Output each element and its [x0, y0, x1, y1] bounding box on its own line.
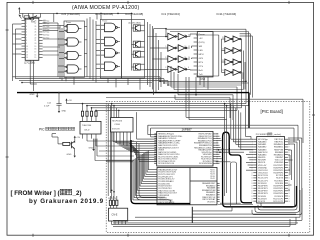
wire EPROM to gates: [43, 22, 58, 24]
wire nested bottom left: [137, 142, 172, 204]
thick arc jumper: [223, 132, 230, 150]
svg-text:PIC16F887(: PIC16F887(: [256, 134, 268, 136]
svg-text:by Grakuraen 2019.9: by Grakuraen 2019.9: [29, 198, 104, 205]
svg-text:RxD: RxD: [199, 70, 204, 72]
wire B1 bottom pins: [112, 132, 114, 142]
svg-text:RD0/1: RD0/1: [210, 169, 215, 171]
wire CN2 bottom drops: [199, 77, 201, 85]
wire gates1 to gates2: [86, 19, 88, 77]
svg-text:6: 6: [26, 35, 27, 37]
svg-text:RC1/CCP2: RC1/CCP2: [273, 201, 284, 203]
svg-text:12: 12: [233, 70, 235, 72]
svg-text:11: 11: [185, 57, 187, 59]
svg-text:21: 21: [35, 40, 37, 42]
NAND gate IC4d: [105, 62, 116, 71]
svg-text:13: 13: [222, 37, 224, 39]
svg-text:27: 27: [35, 23, 37, 25]
svg-text:GND: GND: [89, 148, 94, 150]
wire transistors to inverters: [147, 22, 149, 85]
svg-text:10: 10: [154, 154, 156, 156]
svg-text:13: 13: [222, 70, 224, 72]
wire PIC left verticals: [107, 104, 109, 196]
svg-text:RA4/T0CK: RA4/T0CK: [258, 151, 268, 154]
transistor Q2: [133, 41, 140, 47]
wire bus right extension: [148, 124, 298, 126]
svg-text:PIC: PIC: [39, 128, 45, 132]
IC write socket U-B: [257, 137, 285, 204]
IC writer buffer: [80, 121, 101, 134]
svg-text:10: 10: [26, 46, 28, 48]
svg-text:18: 18: [35, 49, 37, 51]
svg-text:CTS: CTS: [199, 66, 204, 68]
svg-text:CN-E: CN-E: [112, 214, 118, 217]
wire +5V drops: [74, 140, 76, 143]
thick bus vertical 2: [229, 148, 252, 203]
svg-text:RA5/AN4: RA5/AN4: [258, 153, 267, 156]
svg-text:+5V: +5V: [76, 137, 80, 139]
transistor Q3: [133, 51, 140, 57]
wire EPROM bottom: [33, 60, 35, 91]
wire module bottoms to band: [65, 77, 67, 81]
wire fan bus to socket pins: [147, 151, 149, 170]
svg-text:_socket): _socket): [272, 133, 282, 136]
wire IC1 top bus: [154, 28, 167, 30]
EPROM pin1 arrow: [19, 15, 22, 19]
svg-text:24: 24: [35, 32, 37, 34]
svg-text:74HC244: 74HC244: [82, 125, 92, 127]
svg-text:14: 14: [26, 57, 28, 59]
svg-text:+5V: +5V: [199, 38, 203, 40]
svg-text:RD1/2: RD1/2: [210, 172, 215, 174]
svg-text:RA1/AN1: RA1/AN1: [258, 143, 267, 146]
svg-text:GND: GND: [30, 94, 35, 96]
svg-text:16F887: 16F887: [182, 127, 193, 131]
svg-text:RC6/TX: RC6/TX: [258, 201, 266, 203]
svg-text:12: 12: [188, 46, 190, 48]
svg-text:13: 13: [154, 161, 156, 163]
wire bus to B1: [111, 104, 113, 118]
svg-text:RB4/AN11: RB4/AN11: [274, 146, 284, 149]
svg-text:16: 16: [35, 54, 37, 56]
svg-text:12: 12: [233, 60, 235, 62]
svg-text:1: 1: [26, 20, 27, 22]
thick bus wire: [17, 92, 249, 94]
wire crossing rows: [216, 149, 254, 151]
resistor pack RP1: [81, 111, 83, 116]
inverter pair IC1b: [168, 45, 175, 51]
svg-text:7: 7: [26, 37, 27, 39]
svg-text:+5V: +5V: [68, 100, 72, 102]
svg-text:9: 9: [26, 43, 27, 45]
NAND gate IC4b: [105, 37, 116, 46]
svg-text:R4 R5 R6: R4 R5 R6: [108, 198, 116, 200]
svg-text:14: 14: [154, 163, 156, 165]
svg-text:MCP1825: MCP1825: [112, 120, 123, 122]
svg-text:RA0/AN0: RA0/AN0: [258, 141, 267, 144]
svg-text:RA2/AN2: RA2/AN2: [258, 146, 267, 149]
wire B1 to bottom: [111, 132, 113, 199]
svg-text:(4x 2SC1815): (4x 2SC1815): [129, 23, 142, 25]
transistor Q5: [71, 142, 73, 149]
ground EPROM: [36, 93, 38, 96]
wire CN-E bottom bus: [112, 223, 297, 225]
module box IC4: [100, 20, 121, 79]
NOR gate IC5a: [67, 24, 78, 32]
svg-text:(AIWA MODEM PV-A1200): (AIWA MODEM PV-A1200): [72, 5, 140, 11]
inverter pair IC11b: [225, 48, 232, 54]
wire bus drop to IC-B left: [230, 104, 232, 140]
svg-text:RB5/AN13: RB5/AN13: [274, 143, 284, 146]
wire band left: [13, 76, 161, 78]
svg-text:GND: GND: [67, 154, 72, 156]
svg-text:RD4/5: RD4/5: [210, 178, 215, 180]
svg-text:RB2/AN8: RB2/AN8: [275, 151, 284, 154]
svg-text:11: 11: [154, 156, 156, 158]
svg-text:26: 26: [35, 26, 37, 28]
svg-text:VDD/Vss: VDD/Vss: [207, 201, 215, 203]
svg-text:RTS: RTS: [199, 62, 204, 64]
inverter pair IC11a: [225, 36, 232, 42]
wire IC-A right pin extensions: [216, 133, 219, 135]
svg-text:5V/3.3V: 5V/3.3V: [112, 129, 120, 131]
NOR gate IC5c: [67, 51, 78, 59]
wire rail drops: [53, 13, 55, 22]
IC socket U-C/U-D: [157, 168, 217, 205]
wire band right nested: [160, 80, 246, 82]
thick bus vertical: [223, 148, 297, 207]
regulator B1: [111, 118, 133, 132]
module box IC5: [64, 21, 85, 77]
resistor R11: [63, 142, 70, 145]
svg-text:6: 6: [177, 46, 178, 48]
NAND gate IC4a: [105, 23, 116, 32]
svg-text:RB1/AN10: RB1/AN10: [274, 153, 284, 156]
svg-text:12: 12: [233, 48, 235, 50]
svg-text:_2): _2): [72, 190, 82, 197]
svg-text:CN-D: CN-D: [84, 130, 90, 132]
wire IC11 input bus: [221, 39, 223, 72]
wire base rail: [131, 22, 133, 71]
svg-text:GND: GND: [62, 111, 67, 113]
svg-text:22: 22: [35, 37, 37, 39]
svg-text:(DC5): (DC5): [199, 42, 205, 44]
svg-text:[PIC Board]: [PIC Board]: [261, 109, 283, 114]
svg-text:4: 4: [177, 67, 178, 69]
wire pair under arc: [224, 104, 226, 196]
svg-text:12: 12: [233, 37, 235, 39]
power arrow +5V writer: [66, 100, 68, 103]
svg-text:8: 8: [26, 40, 27, 42]
connector CN-E: [109, 208, 128, 221]
inverter pair IC11c: [225, 59, 232, 65]
svg-text:28: 28: [35, 20, 37, 22]
switch SW1: [22, 13, 24, 17]
svg-text:LED: LED: [199, 50, 204, 52]
inverter pair IC11d: [225, 69, 232, 75]
svg-text:23: 23: [35, 35, 37, 37]
module box Q group: [122, 20, 145, 79]
svg-text:IC3 [74HC08]: IC3 [74HC08]: [125, 12, 143, 16]
IC PIC16F886 U-A: [157, 131, 213, 166]
wire bottom verticals: [191, 207, 193, 223]
wire PIC top bus: [67, 103, 247, 105]
svg-text:IC5 [74HC08]: IC5 [74HC08]: [62, 12, 80, 16]
NAND gate IC4c: [105, 49, 116, 58]
NOR gate IC5d: [67, 65, 78, 73]
wire writer base: [57, 137, 59, 144]
wire IC-B right loops: [261, 144, 295, 208]
svg-text:15: 15: [35, 57, 37, 59]
ground writer: [93, 139, 95, 146]
svg-text:IC1 [74HC04]: IC1 [74HC04]: [162, 12, 180, 16]
wire IC11 outputs down: [241, 39, 243, 85]
power rail +5V: [18, 9, 20, 12]
wire IC11 top feed: [166, 28, 246, 30]
transistor Q4: [133, 64, 140, 70]
svg-text:13: 13: [222, 48, 224, 50]
wire fan bus to PIC pins: [147, 125, 149, 134]
svg-text:4: 4: [26, 29, 27, 31]
svg-text:12: 12: [26, 52, 28, 54]
svg-text:IC11 [74HC04]: IC11 [74HC04]: [217, 12, 237, 16]
svg-text:13: 13: [26, 54, 28, 56]
capacitor C14: [58, 93, 60, 104]
svg-text:8: 8: [177, 57, 178, 59]
wire inverters to CN2: [189, 34, 191, 37]
svg-text:25: 25: [35, 29, 37, 31]
svg-text:13: 13: [222, 60, 224, 62]
svg-text:RC4/SDI/SDA: RC4/SDI/SDA: [199, 162, 212, 165]
svg-text:Power: Power: [102, 21, 107, 23]
wire writer to PIC board: [87, 140, 134, 142]
transistor Q1: [133, 25, 140, 31]
svg-text:10: 10: [188, 57, 190, 59]
wire IC1 left bus: [153, 29, 155, 95]
EPROM IC2 27C256: [25, 18, 39, 60]
inverter pair IC1d: [168, 66, 175, 72]
svg-text:13: 13: [185, 46, 187, 48]
svg-text:3: 3: [26, 26, 27, 28]
wire IC-B more stubs: [288, 149, 292, 151]
svg-text:2: 2: [177, 34, 178, 36]
wire bottom bus lines: [192, 210, 232, 212]
inverter pair IC1c: [168, 56, 175, 62]
ground C14: [58, 108, 60, 111]
svg-text:Power: Power: [199, 33, 205, 36]
svg-text:CN2: CN2: [201, 79, 206, 81]
svg-text:MPU: MPU: [199, 54, 204, 56]
svg-text:19: 19: [35, 46, 37, 48]
svg-text:5: 5: [26, 32, 27, 34]
junction dots band: [159, 81, 161, 83]
svg-text:RD2/3: RD2/3: [210, 174, 215, 176]
inverter pair IC1a: [168, 33, 175, 39]
svg-text:RD3/4: RD3/4: [210, 176, 215, 178]
wire top rail: [19, 12, 131, 14]
wire band verticals left: [159, 77, 161, 82]
svg-text:RA3/AN3: RA3/AN3: [258, 148, 267, 151]
wire band line low: [175, 98, 303, 100]
svg-text:11: 11: [26, 49, 28, 51]
thick left vertical: [131, 140, 190, 204]
PIC board dashed outline: [106, 102, 310, 233]
svg-text:Power: Power: [66, 22, 71, 24]
svg-text:TxD: TxD: [199, 74, 203, 76]
wire left bus: [12, 24, 14, 81]
svg-text:GP5: GP5: [199, 58, 204, 60]
svg-text:2: 2: [26, 23, 27, 25]
svg-text:12: 12: [154, 159, 156, 161]
svg-text:17: 17: [35, 52, 37, 54]
svg-text:20: 20: [35, 43, 37, 45]
svg-text:[ FROM Writer ] (: [ FROM Writer ] (: [11, 190, 61, 197]
svg-text:IC4 [74HC08]: IC4 [74HC08]: [95, 12, 113, 16]
junction dots on rail: [56, 13, 58, 15]
svg-text:CN10: CN10: [114, 124, 120, 126]
resistor group R4-R6: [109, 200, 111, 205]
svg-text:0.1uF: 0.1uF: [44, 105, 50, 107]
connector CN2 table: [197, 32, 213, 77]
NOR gate IC5b: [67, 38, 78, 46]
svg-text:RC3/SCK/SCL/14: RC3/SCK/SCL/14: [158, 163, 175, 165]
ground Q5: [74, 149, 76, 153]
wire loop between thick: [231, 162, 237, 206]
